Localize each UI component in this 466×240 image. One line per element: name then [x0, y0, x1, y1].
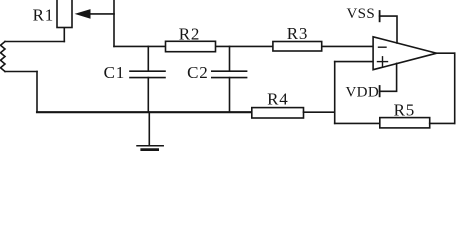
node VDD terminal tick — [379, 86, 381, 96]
resistor R3 — [273, 42, 322, 52]
svg-text:R4: R4 — [267, 90, 288, 109]
wire R3 to op-amp inverting input — [322, 45, 373, 47]
svg-text:VSS: VSS — [346, 6, 375, 22]
wire main top rail to R2 — [114, 45, 166, 47]
op-amp U1 — [373, 37, 437, 70]
wire R5 to output drop — [430, 122, 455, 124]
wire C2 top lead — [229, 46, 231, 71]
svg-text:C2: C2 — [187, 63, 208, 82]
wire feedback rail to R5 — [335, 122, 380, 124]
resistor R2 — [166, 41, 216, 51]
wire C1 top lead — [147, 46, 149, 71]
wire to op-amp non-inverting input — [335, 61, 373, 63]
wire C1 bottom lead to bottom rail — [147, 78, 149, 113]
wire left drop to bottom rail — [36, 72, 38, 113]
svg-text:R1: R1 — [33, 6, 54, 25]
pin - (inverting input mark) — [379, 46, 387, 48]
wire C2 bottom lead to bottom rail — [229, 78, 231, 113]
ground — [137, 146, 163, 150]
capacitor C2 — [212, 71, 247, 77]
wire bottom rail to R4 — [37, 111, 252, 113]
wire VSS to op-amp top — [380, 16, 397, 43]
svg-text:R3: R3 — [287, 24, 308, 43]
capacitor C1 — [130, 71, 165, 77]
pin + (non-inverting input mark) — [378, 57, 388, 67]
resistor R4 — [252, 108, 304, 118]
wire vertical riser from top edge down to main node — [113, 0, 115, 46]
wire coil-top to R1 bottom lead — [5, 41, 64, 43]
resistor R1 (vertical, clipped at top edge) — [57, 0, 72, 28]
wire ground lead — [148, 112, 150, 145]
wire R2 to R3 — [216, 45, 273, 47]
svg-text:VDD: VDD — [345, 85, 379, 101]
svg-text:C1: C1 — [104, 63, 125, 82]
wire VDD to op-amp bottom — [380, 63, 397, 91]
wiper arrowhead of R1 — [75, 9, 91, 19]
wire output feedback drop — [454, 53, 456, 123]
inductor L1 (antenna coil, clipped at left edge) — [1, 42, 6, 72]
wire R4 to non-inverting branch — [304, 111, 335, 113]
node VSS terminal tick — [379, 11, 381, 21]
wire op-amp output — [437, 52, 455, 54]
wire coil-bottom horizontal — [5, 71, 37, 73]
wire R1 bottom lead — [63, 28, 65, 42]
svg-text:R2: R2 — [179, 24, 200, 43]
svg-text:R5: R5 — [394, 101, 415, 120]
resistor R5 — [380, 118, 430, 128]
wire non-inverting input vertical branch — [334, 62, 336, 124]
wire wiper arm to vertical riser — [90, 13, 115, 15]
